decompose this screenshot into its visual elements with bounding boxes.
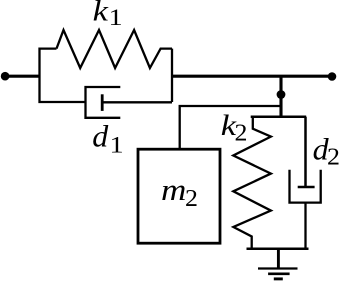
label k1: [93, 0, 123, 31]
svg-text:1: 1: [110, 132, 124, 158]
damper d2 piston: [298, 186, 315, 189]
junction node dot: [277, 90, 286, 99]
spring k1: [57, 30, 173, 68]
main wire right bracket to right terminal: [172, 75, 332, 78]
svg-text:2: 2: [235, 120, 248, 146]
label k2: [221, 108, 248, 146]
damper d1 cup: [86, 87, 121, 118]
damper d2 rod: [304, 117, 307, 187]
ground bar 3: [274, 277, 283, 280]
right bracket of k1/d1: [171, 49, 173, 102]
label m2: [161, 174, 198, 212]
svg-text:1: 1: [109, 5, 123, 31]
ground stem: [277, 249, 280, 269]
label d1: [92, 119, 123, 157]
top bracket of k2/d2: [251, 115, 307, 118]
svg-text:m: m: [161, 174, 186, 207]
label d2: [313, 132, 340, 170]
damper d2 cup: [290, 170, 321, 203]
svg-text:2: 2: [185, 186, 198, 212]
junction wire down: [279, 76, 282, 117]
svg-text:2: 2: [327, 144, 340, 170]
left terminal node: [1, 72, 10, 81]
bottom bracket of k2/d2: [247, 248, 309, 251]
svg-text:k: k: [93, 0, 109, 27]
damper d1 piston: [101, 94, 104, 111]
svg-text:d: d: [92, 119, 108, 153]
right terminal node: [328, 72, 337, 81]
ground bar 2: [268, 272, 290, 275]
wire left terminal to left bracket: [5, 75, 40, 78]
spring k2: [233, 117, 271, 249]
ground bar 1: [258, 267, 298, 269]
damper d2 lower link: [304, 203, 306, 249]
wire junction to mass m2: [180, 106, 281, 150]
left bracket of k1/d1: [40, 49, 86, 102]
mass m2 box: [138, 149, 220, 243]
damper d1 rod: [102, 101, 172, 103]
